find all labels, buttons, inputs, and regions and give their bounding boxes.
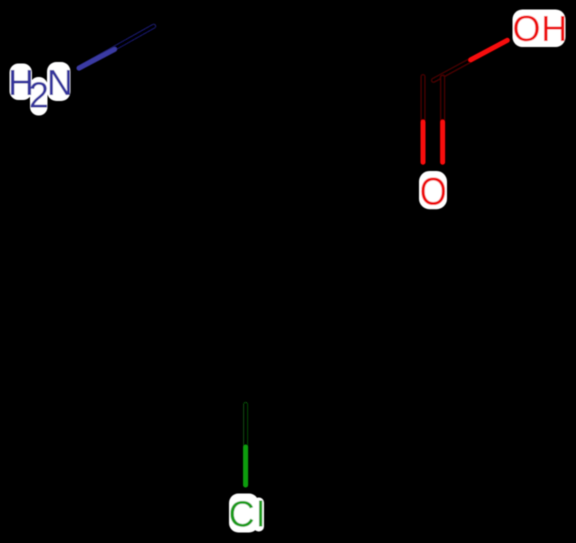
- halo behind C of Cl: [229, 494, 259, 533]
- atom label OH (hydroxyl): [512, 8, 567, 49]
- halo behind subscript 2 of H2N: [30, 77, 48, 116]
- svg-text:O: O: [420, 171, 447, 214]
- atom label Cl (chlorine): [229, 494, 265, 535]
- svg-text:l: l: [257, 494, 265, 535]
- halo behind H of H2N: [10, 64, 33, 101]
- bond C=O double bond left line: [421, 77, 426, 163]
- bond C-OH (carboxyl single bond), oxygen half red: [434, 40, 508, 80]
- svg-text:O: O: [512, 8, 540, 49]
- bond C=O double bond right line: [440, 77, 445, 162]
- halo behind N of H2N: [47, 62, 71, 101]
- bond N-CH2 (amine to methylene), carbon half dark with rim: [79, 26, 154, 68]
- svg-text:C: C: [229, 494, 255, 535]
- halo behind OH: [513, 10, 566, 48]
- halo behind carbonyl O: [419, 171, 447, 209]
- svg-text:H: H: [541, 8, 567, 49]
- bond C-Cl, chlorine half green: [243, 404, 248, 485]
- halo behind l of Cl: [254, 498, 265, 532]
- atom label H2N (amine): [8, 62, 73, 116]
- svg-text:N: N: [47, 62, 73, 103]
